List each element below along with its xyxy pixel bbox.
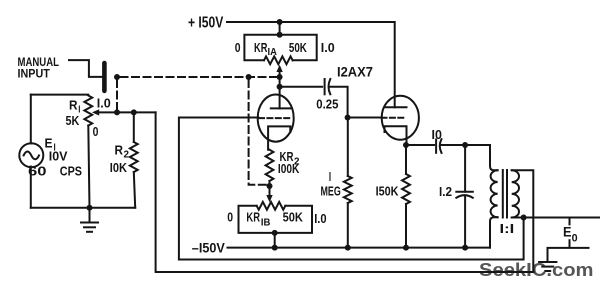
wire ground bus [31,207,135,209]
wire R1 top feed [31,94,89,96]
svg-text:I0K: I0K [110,160,128,175]
svg-text:50K: 50K [289,40,307,55]
svg-text:SeekIC.com: SeekIC.com [479,260,594,280]
svg-text:50K: 50K [283,210,304,225]
svg-text:0: 0 [227,210,233,225]
ground [89,208,91,222]
svg-text:IB: IB [261,218,271,229]
transformer secondary winding [512,170,519,217]
svg-text:R: R [69,97,78,112]
wire manual input [69,60,102,77]
svg-text:I0: I0 [432,127,442,142]
wire KR1B bottom lead [272,230,278,236]
capacitor 1.2 [464,145,466,192]
svg-text:+ I50V: + I50V [188,14,224,31]
wire feedback 2 (wiper line to xfmr secondary top) [156,112,534,272]
svg-text:I.0: I.0 [314,211,326,226]
svg-text:I: I [329,169,331,184]
wire E1 bottom lead [30,167,32,208]
KR1B wiper arrow [269,186,271,196]
wire V2 cathode node [403,142,409,148]
wire output terminal bottom [548,248,589,262]
transformer core [502,170,504,218]
potentiometer KR1A box [244,35,316,61]
wire feedback 1 (V1 grid loop) [179,118,524,260]
resistor 150K [405,145,407,174]
manual input slider bar [102,61,107,93]
svg-text:MEG: MEG [321,184,341,199]
svg-text:0: 0 [235,40,241,55]
capacitor 10 [435,140,437,153]
node +150V/KR1A junction [277,19,283,25]
svg-text:E: E [563,223,572,239]
transformer primary lead top [490,145,498,170]
source E1 top lead [30,95,32,144]
wire R1 bottom lead [88,126,89,208]
dashed link to KR1B wiper [249,80,267,185]
svg-text:–I50V: –I50V [192,241,225,256]
transformer primary lead bottom [490,217,498,247]
ground (output) [539,261,556,263]
svg-text:KR: KR [254,40,268,55]
dashed link to R1 wiper [116,80,118,112]
svg-text:I:I: I:I [500,221,515,236]
svg-text:0.25: 0.25 [316,96,338,111]
V2 grid (dashed) [382,117,404,119]
svg-text:I.2: I.2 [439,184,452,199]
svg-text:I50K: I50K [376,184,399,199]
wire KR1A top lead [279,22,281,35]
dashed control link (manual input shaft) [121,76,280,78]
wire V2 grid [348,117,382,119]
svg-text:5K: 5K [66,113,80,128]
resistor element KR1B [257,202,286,210]
V2 cathode [385,126,407,145]
svg-text:CPS: CPS [60,163,82,178]
node V1 plate junction [277,84,283,90]
wire output terminal top [524,217,600,219]
svg-text:0: 0 [93,124,99,139]
svg-text:I00K: I00K [278,161,300,176]
E0 measurement ticks [569,219,571,224]
svg-text:INPUT: INPUT [18,67,51,81]
V2 plate [385,106,407,108]
wire +150V rail to V2 plate [227,22,395,107]
svg-text:I.0: I.0 [321,40,335,55]
R1 wiper arrow line [99,111,156,113]
transformer secondary lead top [512,170,534,272]
svg-text:IA: IA [268,47,277,58]
capacitor 0.25 coupling [280,86,323,88]
source E1 (sine generator) [19,143,43,167]
KR1A wiper arrow [279,72,281,87]
svg-text:KR: KR [246,210,260,225]
resistor 1 MEG [347,118,349,177]
wire -150V rail [228,247,491,249]
transformer secondary lead bottom / output node [512,217,524,219]
resistor R2 10K [133,112,135,142]
resistor KR2 100K [266,150,274,181]
potentiometer KR1B box [239,206,313,233]
svg-text:60: 60 [28,163,47,178]
svg-text:0: 0 [572,233,578,245]
triode V2 envelope [382,96,419,140]
V1 grid (dashed) [259,117,292,119]
resistor R1 5K [84,96,92,126]
triode V1 envelope [258,95,294,142]
resistor element KR1A [264,56,293,64]
svg-text:I.0: I.0 [97,96,111,111]
V1 cathode [268,126,290,149]
svg-text:I2AX7: I2AX7 [337,65,373,80]
transformer primary winding [491,170,498,217]
svg-text:I0V: I0V [49,148,68,163]
V1 plate [279,87,281,109]
svg-text:R: R [115,143,124,158]
